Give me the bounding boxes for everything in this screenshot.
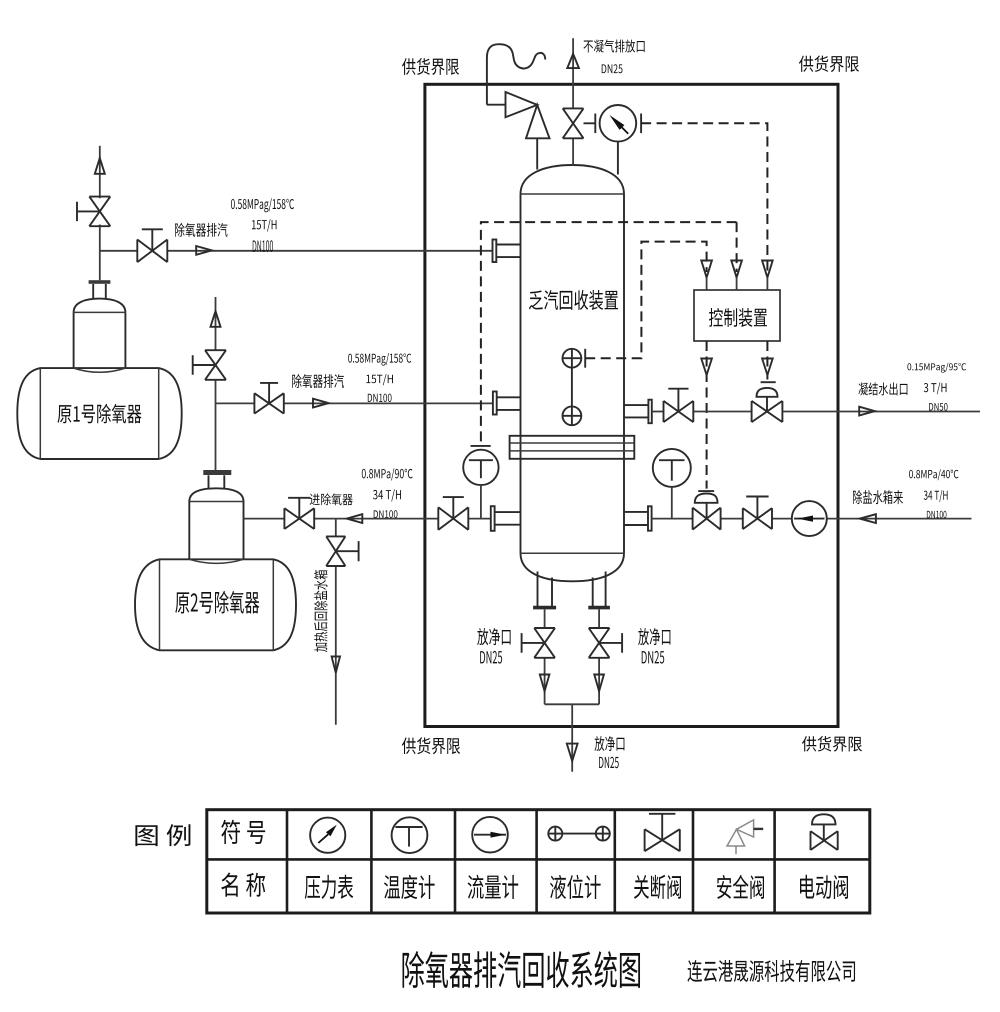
shut-off valve near deaerator No.2 bbox=[284, 498, 314, 529]
vent arrow deaerator No.1 bbox=[95, 158, 105, 174]
exhaust steam recovery vessel (乏汽回收装置) bbox=[521, 165, 625, 581]
label 供货界限 bottom-left bbox=[402, 737, 460, 754]
label 0.58MPag/158C line1 bbox=[231, 198, 294, 212]
shut-off valve on tank branch bbox=[326, 536, 358, 566]
deaerator No.2 top nozzle and flange bbox=[203, 470, 231, 489]
thermometer T2 (温度计) bbox=[653, 449, 691, 519]
legend name 压力表 bbox=[305, 875, 353, 899]
electric control valve on feedwater line bbox=[693, 491, 721, 529]
signal line segment to control box bbox=[736, 222, 738, 272]
legend thermometer symbol bbox=[392, 817, 428, 853]
legend name 液位计 bbox=[550, 875, 601, 899]
legend name 温度计 bbox=[384, 875, 435, 899]
label 供货界限 top-right bbox=[799, 56, 859, 72]
drain collector header bbox=[545, 703, 600, 705]
instrument boundary dashed line bbox=[481, 222, 737, 446]
legend header 名称 bbox=[221, 873, 265, 897]
rotated label 加热后回除盐水箱 bbox=[314, 570, 327, 652]
label 3T/H bbox=[924, 382, 947, 394]
label 进除氧器 bbox=[310, 493, 353, 505]
legend table frame bbox=[207, 810, 870, 913]
legend name 电动阀 bbox=[800, 875, 848, 899]
shut-off valve on steam line 1 bbox=[137, 229, 167, 262]
label 0.8MPa/40C bbox=[909, 469, 958, 480]
legend pressure gauge symbol bbox=[310, 818, 345, 853]
vent arrow deaerator No.2 bbox=[211, 311, 221, 327]
shut-off valve on steam line 2 bbox=[254, 383, 283, 414]
steam line from deaerator No.2 (y=403) bbox=[216, 402, 493, 404]
label 34T/H return bbox=[373, 489, 401, 501]
vent arrow up (不凝气排放口) bbox=[567, 54, 579, 68]
label 原1号除氧器 bbox=[57, 404, 141, 424]
atmospheric vent squiggle bbox=[487, 44, 545, 104]
electric control valve on condensate line bbox=[752, 382, 783, 422]
signal arrow into control box 1 bbox=[701, 261, 712, 290]
flow arrow to deaerator (points left) bbox=[347, 514, 363, 523]
label 除氧器排汽 line1 bbox=[175, 223, 227, 237]
vessel nozzle N2 with flange bbox=[493, 392, 521, 415]
deaerator No.1 neck cylinder bbox=[74, 299, 126, 373]
control device box (控制装置) bbox=[694, 290, 780, 341]
pressure gauge (压力表) bbox=[584, 105, 642, 175]
left drain line bbox=[544, 609, 546, 704]
legend electric valve symbol bbox=[811, 814, 838, 850]
non-condensable gas vent pipe bbox=[572, 38, 574, 165]
deaerator No.2 drum (原2号除氧器) bbox=[135, 559, 296, 650]
condensate outlet pipe (凝结水出口 y=411.5) bbox=[652, 411, 980, 413]
label 0.58MPag/158C line2 bbox=[348, 353, 411, 366]
legend name 安全阀 bbox=[717, 875, 764, 899]
legend name 关断阀 bbox=[634, 875, 681, 899]
label 15T/H line2 bbox=[366, 374, 393, 385]
label DN100 line2 bbox=[368, 394, 392, 402]
drawing title 除氧器排汽回收系统图 bbox=[403, 951, 641, 988]
company name 连云港晟源科技有限公司 bbox=[688, 960, 856, 982]
heated water return line (进除氧器 y=519) bbox=[244, 518, 491, 520]
label 0.8MPa/90C bbox=[362, 468, 413, 480]
deaerator No.2 vent pipe bbox=[215, 297, 217, 470]
signal line from level gauge bbox=[585, 242, 706, 359]
main drain line down bbox=[571, 704, 573, 771]
level gauge lower tap bbox=[563, 406, 582, 425]
supply boundary box (供货界限) bbox=[425, 84, 838, 726]
legend safety valve symbol bbox=[727, 820, 763, 854]
label DN100 line1 bbox=[253, 240, 273, 252]
down arrow on tank branch bbox=[332, 657, 340, 673]
vessel nozzle N3 with flange bbox=[491, 506, 521, 531]
legend table inner grid bbox=[207, 810, 870, 913]
safety valve (安全阀) bbox=[487, 92, 550, 170]
level gauge upper tap (液位计) bbox=[563, 349, 582, 368]
deaerator No.1 top nozzle and flange bbox=[89, 280, 111, 299]
shut-off valve on condensate line bbox=[664, 389, 694, 422]
flow arrow condensate outlet bbox=[859, 407, 875, 416]
label DN100 return bbox=[374, 510, 398, 518]
flow arrow feedwater (points left) bbox=[860, 514, 876, 523]
label 除盐水箱来 bbox=[853, 490, 903, 504]
left drain arrow bbox=[540, 675, 550, 692]
legend name 流量计 bbox=[468, 875, 519, 899]
signal output arrow 2 bbox=[762, 359, 773, 376]
label 34T/H feed bbox=[924, 490, 948, 502]
flow arrow steam line 1 bbox=[196, 246, 212, 255]
deaerator No.1 vent pipe bbox=[99, 146, 101, 280]
label 凝结水出口 bbox=[859, 382, 908, 395]
flow arrow steam line 2 bbox=[313, 399, 329, 408]
demineralized water pipe (除盐水箱来 y=518.6) bbox=[652, 518, 972, 520]
vessel nozzle N4 with flange bbox=[624, 400, 652, 424]
right drain valve (放净口) bbox=[589, 628, 622, 658]
deaerator No.1 drum (原1号除氧器) bbox=[17, 368, 181, 459]
label DN25 bottom drain bbox=[599, 757, 619, 768]
legend header 符号 bbox=[221, 820, 265, 844]
label 0.15MPag/95C bbox=[907, 363, 966, 373]
level gauge connecting line bbox=[571, 368, 573, 407]
legend title 图例 bbox=[135, 824, 190, 846]
label 放净口 bottom bbox=[595, 736, 625, 751]
branch line to demineralized water tank bbox=[335, 519, 337, 725]
shut-off valve on vent stack bbox=[563, 108, 584, 138]
label 供货界限 bottom-right bbox=[802, 736, 862, 752]
level gauge signal tap bar bbox=[584, 349, 586, 368]
signal output to feedwater control valve bbox=[706, 341, 708, 489]
signal arrow into control box 2 bbox=[731, 261, 742, 290]
signal output arrow 1 bbox=[701, 359, 712, 376]
legend flow meter symbol bbox=[472, 817, 508, 853]
label 供货界限 top-left bbox=[402, 58, 459, 75]
vessel nozzle N1 with flange bbox=[493, 240, 521, 263]
shut-off valve on deaerator No.2 vent bbox=[193, 350, 226, 380]
label 不凝气排放口 bbox=[584, 40, 645, 53]
control box label 控制装置 bbox=[709, 308, 767, 327]
left drain valve (放净口) bbox=[522, 628, 555, 658]
shut-off valve on feedwater line bbox=[743, 497, 772, 530]
signal arrow into control box 3 bbox=[762, 261, 773, 290]
label 放净口 left bbox=[477, 628, 510, 645]
signal line from pressure gauge bbox=[641, 123, 767, 272]
deaerator No.2 neck cylinder bbox=[189, 488, 243, 563]
legend level gauge symbol bbox=[548, 827, 610, 841]
label DN25 left drain bbox=[480, 651, 502, 664]
label 除氧器排汽 line2 bbox=[292, 374, 344, 388]
label DN25 vent bbox=[602, 64, 623, 73]
shut-off valve on deaerator No.1 vent bbox=[77, 197, 110, 227]
vessel support ring bbox=[510, 436, 635, 459]
shut-off valve near vessel on return line bbox=[438, 497, 468, 530]
legend shut-off valve symbol bbox=[645, 814, 680, 851]
leg flanges bbox=[533, 606, 610, 610]
label 原2号除氧器 bbox=[175, 591, 259, 614]
signal output to condensate control valve bbox=[766, 341, 768, 380]
right drain arrow bbox=[594, 675, 604, 692]
label DN25 right drain bbox=[642, 651, 665, 664]
label 放净口 right bbox=[638, 628, 670, 645]
right drain line bbox=[598, 609, 600, 704]
vessel bottom legs bbox=[538, 572, 606, 607]
vessel nozzle N5 with flange bbox=[624, 506, 652, 530]
label DN50 bbox=[929, 403, 947, 411]
vessel label 乏汽回收装置 bbox=[529, 290, 618, 310]
label DN100 feed bbox=[927, 511, 947, 519]
flow meter (流量计) bbox=[792, 501, 827, 536]
label 15T/H line1 bbox=[252, 219, 277, 231]
thermometer T1 (温度计) bbox=[463, 446, 498, 519]
main drain arrow bbox=[567, 744, 578, 761]
steam line from deaerator No.1 (y=251) bbox=[100, 250, 493, 252]
